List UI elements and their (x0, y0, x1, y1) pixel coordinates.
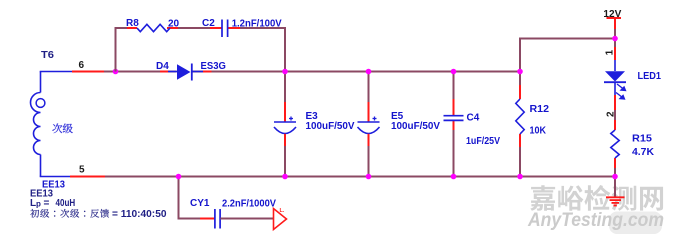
resistor R8 pin 1 (127, 27, 137, 29)
wire snubber top right (228, 27, 286, 29)
wire CY1 drop (178, 177, 180, 220)
node junction (453.5,176.5) (451, 174, 457, 180)
svg-text:AnyTesting.com: AnyTesting.com (527, 209, 664, 231)
label 次级 (52, 123, 72, 133)
wire CY1 horizontal (178, 218, 215, 220)
port (off-sheet connector) (274, 209, 287, 230)
resistor R12 pin 1 (519, 85, 521, 99)
transformer T6 winding (31, 72, 73, 177)
LED1 pin 2 (614, 95, 616, 110)
capacitor C4 pin 1 (453, 99, 455, 115)
svg-text:=: = (44, 198, 50, 209)
ground (606, 197, 625, 205)
svg-text:1: 1 (605, 49, 616, 55)
watermark logo blob (609, 212, 662, 235)
svg-text:4.7K: 4.7K (632, 147, 655, 158)
resistor R8 (137, 24, 170, 31)
note 初级:次级:反馈 = 110:40:50 (30, 209, 167, 220)
svg-text:1uF/25V: 1uF/25V (466, 136, 500, 147)
node junction (285,176.5) (282, 174, 288, 180)
node junction (368.5,71.5) (366, 69, 372, 75)
wire (368, 72, 370, 103)
svg-text:ES3G: ES3G (201, 61, 227, 72)
svg-text:C2: C2 (202, 18, 215, 29)
node junction (178.5,176.5) (176, 174, 182, 180)
svg-text:2.2nF/1000V: 2.2nF/1000V (222, 199, 276, 210)
capacitor CY1 pin 2 (220, 218, 233, 220)
svg-text:1.2nF/100V: 1.2nF/100V (232, 19, 282, 30)
pin 5 (70, 176, 105, 178)
wire (368, 146, 370, 177)
diode D4 (168, 64, 203, 81)
svg-text:= 110:40:50: = 110:40:50 (112, 209, 167, 220)
capacitor C4 pin 2 (453, 121, 455, 130)
resistor R12 (516, 99, 524, 134)
LED LED1 (604, 60, 627, 100)
capacitor CY1 pin 1 (200, 218, 215, 220)
wire (453, 72, 455, 100)
svg-text:R8: R8 (126, 18, 139, 29)
watermark 嘉峪检测网 (530, 185, 663, 211)
svg-text:p: p (36, 200, 41, 209)
wire (614, 110, 616, 120)
svg-text:10K: 10K (530, 126, 547, 137)
svg-text:12V: 12V (603, 9, 621, 20)
capacitor C2 pin 1 (210, 27, 222, 29)
wire snubber top left (115, 27, 138, 29)
svg-text:20: 20 (168, 19, 180, 30)
svg-text:D4: D4 (156, 61, 169, 72)
svg-text:T6: T6 (41, 50, 54, 61)
diode D4 pin anode (160, 71, 169, 73)
resistor R15 pin 1 (614, 120, 616, 130)
svg-text:R15: R15 (632, 134, 652, 145)
capacitor CY1 (215, 209, 220, 229)
capacitor E5 (358, 102, 380, 146)
svg-text:6: 6 (79, 60, 85, 71)
capacitor C4 (444, 116, 464, 121)
svg-text:100uF/50V: 100uF/50V (391, 121, 440, 132)
pin 6 (72, 71, 104, 73)
wire (614, 29, 616, 47)
wire snubber right drop (284, 28, 286, 72)
node junction (615,176.5) (612, 174, 618, 180)
node junction (453.5,71.5) (451, 69, 457, 75)
wire main bus right (193, 71, 522, 73)
node junction (368.5,176.5) (366, 174, 372, 180)
svg-text:100uF/50V: 100uF/50V (306, 121, 355, 132)
svg-text:CY1: CY1 (190, 198, 210, 209)
resistor R8 pin 2 (167, 27, 178, 29)
wire (614, 168, 616, 177)
node junction (285,71.5) (282, 69, 288, 75)
diode D4 pin cathode (203, 71, 212, 73)
wire bottom bus (105, 176, 616, 178)
wire (519, 147, 521, 177)
wire right riser (519, 38, 521, 86)
wire (453, 130, 455, 177)
wire snubber vertical (115, 27, 117, 72)
node junction (115.5,71.5) (113, 69, 119, 75)
svg-text:40uH: 40uH (56, 198, 76, 209)
resistor R15 pin 2 (614, 158, 616, 168)
capacitor C2 pin 2 (228, 27, 240, 29)
node junction (520,176.5) (517, 174, 523, 180)
capacitor E3 (274, 102, 296, 146)
wire ground stem (614, 177, 616, 197)
svg-text:C4: C4 (467, 113, 480, 124)
wire (284, 146, 286, 177)
wire snubber top mid (167, 27, 222, 29)
wire top rail (519, 38, 616, 40)
wire (220, 218, 273, 220)
wire main bus left (104, 71, 177, 73)
power port 12V (607, 18, 622, 29)
node junction (520,71.5) (517, 69, 523, 75)
resistor R15 (611, 130, 619, 158)
svg-text:5: 5 (79, 165, 85, 176)
capacitor C2 (222, 20, 228, 38)
node junction 12V rail (612, 36, 618, 42)
LED1 pin 1 (614, 47, 616, 60)
svg-text:L.: L. (280, 208, 285, 214)
svg-text:R12: R12 (530, 104, 550, 115)
wire (284, 72, 286, 103)
svg-text:LED1: LED1 (638, 71, 662, 82)
resistor R12 pin 2 (519, 134, 521, 147)
